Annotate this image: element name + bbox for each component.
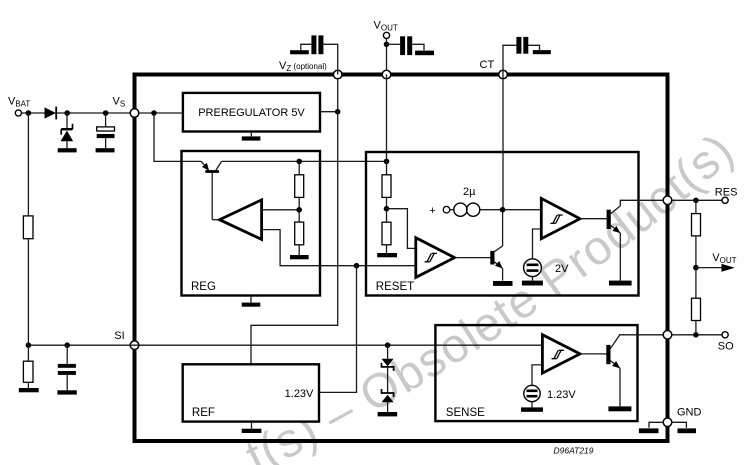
junction R6	[26, 342, 32, 348]
ground for Z1	[58, 148, 77, 152]
op-amp A4 (REG error amp)	[212, 200, 261, 240]
SENSE block box	[435, 325, 637, 421]
terminal RES	[715, 187, 738, 204]
node VS	[113, 96, 139, 118]
current source I1 2uA	[429, 186, 502, 217]
capacitor C5	[58, 345, 76, 390]
wire divider mid to comparator A1	[387, 209, 416, 249]
svg-text:PREREGULATOR 5V: PREREGULATOR 5V	[198, 107, 305, 119]
terminal SO	[718, 332, 734, 353]
ground for C5	[57, 390, 76, 394]
svg-text:SENSE: SENSE	[446, 407, 485, 419]
junction prereg output	[335, 109, 341, 115]
svg-text:SI: SI	[114, 330, 124, 342]
ground for V2	[521, 407, 543, 411]
svg-text:REF: REF	[192, 407, 215, 419]
wire VS junction down to REG transistor	[154, 113, 201, 161]
ground under REG	[242, 296, 261, 307]
wire A1 output to Q1 base	[455, 257, 492, 259]
REF block box	[183, 364, 319, 421]
junction VOUT cap	[384, 42, 390, 48]
ground for D3	[378, 412, 398, 416]
ground for C4	[533, 50, 551, 54]
wire A3 output to Q3 base	[580, 353, 607, 355]
ground left of GND node	[639, 422, 663, 433]
comparator A2	[541, 198, 580, 238]
transistor Q4 (REG pass PNP)	[201, 161, 221, 219]
junction SI diodes	[385, 342, 391, 348]
resistor R2 (REG divider bottom)	[295, 222, 304, 255]
resistor R6 (lower left)	[23, 345, 33, 388]
REG block box	[182, 151, 321, 296]
ground for V1	[522, 281, 543, 286]
ground under REF	[242, 422, 262, 433]
resistor R1 (REG divider top)	[295, 161, 304, 222]
junction REG divider top	[296, 159, 302, 165]
node CT	[480, 59, 508, 79]
wire SI line	[28, 344, 542, 346]
terminal VBAT	[8, 96, 30, 117]
wire RES line	[672, 199, 722, 201]
junction cap C1	[103, 110, 109, 116]
svg-text:2V: 2V	[555, 263, 569, 275]
capacitor C3 on VOUT	[387, 36, 425, 55]
wire A4 upper input to divider	[262, 209, 300, 211]
ground for C2	[290, 50, 309, 54]
junction SO	[693, 332, 699, 338]
wire A2 lower input to 2V source	[533, 229, 542, 259]
svg-text:2µ: 2µ	[463, 186, 476, 198]
ground for C3	[415, 51, 434, 56]
svg-text:SO: SO	[718, 341, 734, 353]
wire A3 lower input to 1.23V source	[532, 365, 542, 385]
wire A1 lower input from REG/REF line	[357, 265, 416, 267]
VOUT output arrow	[696, 252, 737, 272]
ground for C1	[96, 148, 115, 152]
diode D3	[382, 389, 394, 412]
voltage source V1 2V	[524, 259, 570, 281]
ground for Q3	[608, 406, 631, 411]
wire SO line	[672, 334, 722, 336]
node GND on border	[663, 407, 701, 427]
ground for Q1	[493, 281, 513, 286]
node VOUT on border	[382, 70, 391, 79]
junction 1.23V line	[354, 263, 360, 269]
wire preregulator output to VZ line	[320, 111, 338, 113]
terminal VOUT top	[374, 20, 398, 39]
wire junction to comparator A2	[503, 209, 542, 211]
wire Q4 collector rail	[222, 160, 387, 162]
ground for Q2	[609, 281, 632, 286]
ground for RESET divider	[377, 253, 397, 257]
transistor Q1	[490, 210, 502, 281]
voltage source V2 1.23V	[524, 385, 577, 407]
wire CT line down	[502, 75, 504, 210]
ground right of GND node	[672, 422, 696, 433]
node SI	[114, 330, 139, 350]
wire VOUT sense line down	[386, 75, 388, 162]
preregulator block	[183, 93, 320, 132]
wire VBAT down leg	[27, 113, 29, 216]
wire VZ line down to REF	[251, 75, 338, 365]
svg-text:D96AT219: D96AT219	[554, 446, 594, 456]
junction RESET divider mid	[384, 206, 390, 212]
wire VOUT terminal down	[386, 39, 388, 75]
resistor R8	[692, 268, 701, 335]
wire REF 1.23V output up to A1 input line	[319, 266, 357, 393]
node VZ	[279, 60, 342, 79]
junction C5	[64, 342, 70, 348]
resistor R3 (RESET divider top)	[382, 161, 391, 222]
junction VOUT arrow	[693, 265, 699, 271]
zener diode Z1	[61, 113, 74, 148]
svg-text:RES: RES	[715, 187, 738, 199]
diode D1	[45, 107, 68, 120]
transistor Q2	[607, 200, 668, 280]
resistor R4 (RESET divider bottom)	[382, 222, 391, 253]
junction RESET divider top	[384, 159, 390, 165]
junction zener	[64, 110, 70, 116]
node RES on border	[663, 196, 672, 205]
svg-text:1.23V: 1.23V	[285, 388, 314, 400]
outer IC boundary box	[135, 75, 668, 442]
wire A4 lower input to 1.23V ref	[262, 230, 357, 266]
capacitor C4 on CT	[503, 37, 540, 75]
junction VS internal	[151, 110, 157, 116]
wire VBAT to diode	[22, 112, 45, 114]
svg-text:GND: GND	[677, 407, 702, 419]
capacitor C1 (electrolytic)	[97, 113, 115, 148]
diode D2	[382, 345, 394, 393]
svg-text:+: +	[429, 205, 435, 217]
ground for R6	[19, 388, 39, 392]
svg-text:CT: CT	[480, 59, 495, 71]
transistor Q3	[606, 335, 667, 407]
junction REG divider mid	[296, 207, 302, 213]
wire A2 output to Q2 base	[580, 218, 607, 220]
svg-text:RESET: RESET	[376, 281, 414, 293]
svg-text:1.23V: 1.23V	[547, 389, 576, 401]
RESET block box	[366, 152, 639, 296]
ground for REG divider	[290, 255, 309, 259]
resistor R7	[692, 200, 701, 267]
ground under preregulator	[242, 132, 261, 141]
wire diode to VS	[67, 112, 139, 114]
node SO on border	[663, 331, 672, 340]
junction CT / current source	[500, 207, 506, 213]
comparator A1	[416, 238, 455, 278]
capacitor C2 on VZ	[301, 35, 338, 74]
svg-text:REG: REG	[191, 281, 216, 293]
resistor R5 (upper left)	[23, 216, 33, 345]
junction R7	[693, 198, 699, 204]
junction VBAT branch	[26, 110, 32, 116]
comparator A3	[542, 335, 580, 373]
wire VS to preregulator	[139, 112, 183, 114]
